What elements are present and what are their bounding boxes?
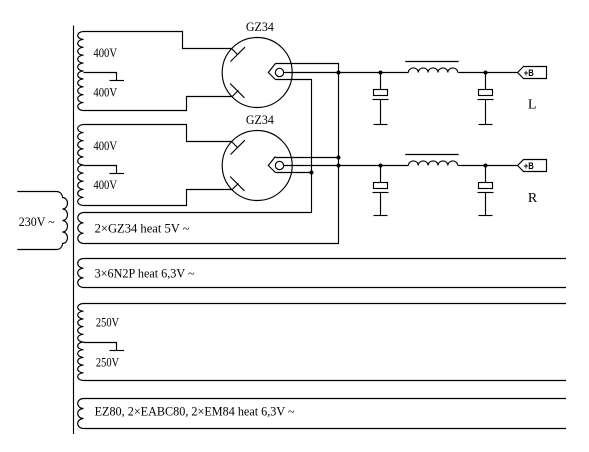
svg-text:400V: 400V <box>93 177 117 192</box>
junction C2 node <box>484 71 488 75</box>
ground center tap winding2 <box>110 173 125 175</box>
U2 cathode flag <box>268 157 275 173</box>
wire U2 flag bottom edge <box>275 172 311 174</box>
wire U2 flag top edge <box>275 157 338 159</box>
junction C3 node <box>379 164 383 168</box>
svg-text:EZ80, 2×EABC80, 2×EM84 heat 6,: EZ80, 2×EABC80, 2×EM84 heat 6,3V ~ <box>95 404 295 419</box>
secondary winding 6,3V EZ80/EABC80/EM84 heaters <box>78 399 84 429</box>
ground C3 <box>374 215 388 217</box>
capacitor C1 <box>380 73 382 90</box>
U1 cathode flag <box>268 64 275 80</box>
rectifier tube U2 GZ34 envelope <box>222 131 292 201</box>
wire 6N2P heat top <box>84 258 567 260</box>
svg-text:250V: 250V <box>96 355 120 370</box>
wire 6N2P heat bottom <box>84 287 567 289</box>
wire EZ80 heat bottom <box>84 428 567 430</box>
wire center tap 250V winding <box>84 343 117 351</box>
wire 400V-1 top to U1 upper anode <box>84 32 232 49</box>
ground center tap 250V winding <box>110 350 125 352</box>
svg-text:GZ34: GZ34 <box>246 112 274 127</box>
wire U1 flag bottom edge / heater bus A <box>84 80 312 213</box>
svg-text:400V: 400V <box>93 138 117 153</box>
svg-text:2×GZ34 heat 5V ~: 2×GZ34 heat 5V ~ <box>95 220 190 235</box>
wire 400V-1 bottom to U1 lower anode <box>84 97 233 111</box>
choke R-channel winding <box>408 161 457 166</box>
svg-text:230V ~: 230V ~ <box>19 214 55 229</box>
wire 400V-2 bottom to U2 lower anode <box>84 190 233 206</box>
secondary winding 400V-1 (CT pair for U1) <box>78 32 84 111</box>
capacitor C3 <box>380 166 382 183</box>
svg-text:GZ34: GZ34 <box>246 19 274 34</box>
secondary winding 400V-2 (CT pair for U2) <box>78 125 84 206</box>
U2 upper anode plate <box>232 142 238 148</box>
choke R-channel core bar <box>405 154 459 156</box>
transformer core <box>73 26 75 435</box>
ground C2 <box>479 124 493 126</box>
wire 400V-2 top to U2 upper anode <box>84 125 232 142</box>
wire B+ rail R <box>284 165 409 167</box>
capacitor C4 <box>485 166 487 183</box>
junction heater busA U2 bottom <box>310 171 314 175</box>
svg-text:+B: +B <box>524 68 534 78</box>
svg-text:L: L <box>528 98 537 113</box>
terminal +B L out <box>518 67 547 79</box>
svg-text:250V: 250V <box>96 314 120 329</box>
terminal +B R out <box>518 160 547 172</box>
wire 250V bottom <box>84 380 567 382</box>
svg-text:+B: +B <box>524 161 534 171</box>
U1 heater circle <box>275 68 283 76</box>
wire center tap winding2 <box>84 166 117 174</box>
svg-text:3×6N2P heat 6,3V ~: 3×6N2P heat 6,3V ~ <box>95 266 195 281</box>
svg-text:R: R <box>528 191 538 206</box>
U1 upper anode plate <box>232 49 238 55</box>
choke L-channel core bar <box>405 61 459 63</box>
rectifier tube U1 GZ34 envelope <box>222 38 292 108</box>
wire U1 flag top edge / heater bus B <box>84 64 339 244</box>
wire B+ rail L <box>284 72 409 74</box>
svg-text:400V: 400V <box>93 85 117 100</box>
secondary winding 6,3V 6N2P heaters <box>78 259 84 288</box>
junction C4 node <box>484 164 488 168</box>
capacitor C2 <box>485 73 487 90</box>
junction heater busB B+R <box>337 164 341 168</box>
U2 lower anode plate <box>232 183 238 189</box>
wire EZ80 heat top <box>84 398 567 400</box>
U2 heater circle <box>275 161 283 169</box>
choke L-channel winding <box>408 68 457 73</box>
ground C1 <box>374 124 388 126</box>
secondary winding 250V CT pair <box>78 304 84 381</box>
svg-text:400V: 400V <box>93 45 117 60</box>
ground center tap winding1 <box>110 80 125 82</box>
junction heater busB B+L <box>337 71 341 75</box>
junction heater busB U2 top <box>337 156 341 160</box>
wire center tap winding1 <box>84 73 117 81</box>
primary winding 230V <box>17 192 67 250</box>
ground C4 <box>479 215 493 217</box>
secondary winding 5V GZ34 heaters <box>78 213 84 244</box>
U1 lower anode plate <box>232 90 238 96</box>
junction C1 node <box>379 71 383 75</box>
wire 250V top <box>84 303 567 305</box>
